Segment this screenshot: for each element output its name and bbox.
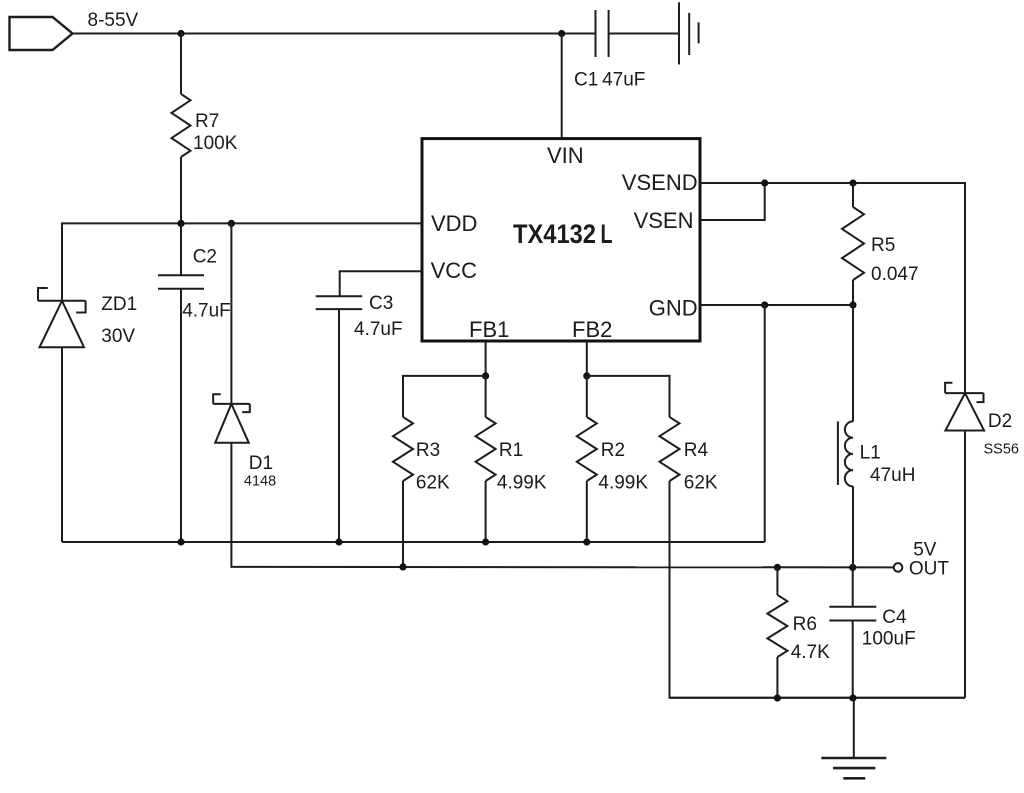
svg-text:D1: D1 [249,453,273,474]
node FB1 [482,372,489,379]
node R6 bottom [774,694,781,701]
svg-text:30V: 30V [101,326,135,347]
node C4 bottom [849,694,856,701]
svg-text:62K: 62K [416,473,450,494]
node R1 bottom [482,538,489,545]
svg-text:R7: R7 [195,111,219,132]
svg-text:L: L [601,219,613,249]
svg-text:R4: R4 [684,440,709,461]
svg-text:C2: C2 [193,246,217,267]
node D1 top [228,220,235,227]
node C4 top [849,564,856,571]
ground (top right, sideways) [679,2,699,64]
wire FB2 node to R4 [587,376,670,417]
svg-text:TX4132: TX4132 [513,219,596,249]
svg-text:100K: 100K [193,133,238,154]
wire VSEND [700,183,965,393]
svg-text:4148: 4148 [244,474,276,490]
resistor R1 [476,376,496,542]
wire FB2 pin [586,341,588,376]
svg-text:4.7uF: 4.7uF [182,301,231,322]
svg-text:C1 47uF: C1 47uF [574,70,645,91]
wire VSEN [700,183,765,220]
svg-text:L1: L1 [860,442,881,463]
svg-text:OUT: OUT [909,559,950,580]
svg-text:R5: R5 [871,235,895,256]
svg-text:R1: R1 [499,440,523,461]
node R5 top [849,179,856,186]
svg-text:5V: 5V [913,539,937,560]
svg-text:R3: R3 [416,440,440,461]
node R6 top [774,564,781,571]
terminal 5V OUT [894,563,903,572]
wire top input rail [73,33,596,35]
svg-text:4.99K: 4.99K [497,473,547,494]
node FB2 [583,372,590,379]
inductor L1 [838,305,853,567]
svg-text:R2: R2 [601,440,625,461]
diode D2 [945,383,984,698]
svg-text:0.047: 0.047 [871,264,919,285]
wire VCC [340,271,422,296]
wire VIN [561,34,563,139]
capacitor C4 [829,567,876,699]
node R3 bottom [399,563,406,570]
wire GND pin [700,304,853,306]
capacitor C3 [316,296,363,542]
capacitor C2 [158,223,204,542]
svg-text:FB2: FB2 [572,317,612,342]
resistor R3 [393,417,413,567]
node junction R7/top [177,30,184,37]
wire output rail 5V [232,566,893,569]
wire FB1 node to R3 [403,376,486,417]
wire GND down [764,305,766,542]
capacitor C1 [596,10,680,57]
wire ground rail bottom [670,697,966,699]
resistor R2 [577,376,597,542]
resistor R6 [767,567,787,699]
svg-text:ZD1: ZD1 [101,294,137,315]
node R5 bottom [849,301,856,308]
svg-text:FB1: FB1 [469,317,509,342]
resistor R7 [172,34,191,224]
svg-text:C4: C4 [882,607,907,628]
node VSEN join [761,179,768,186]
svg-text:VSEND: VSEND [622,170,698,195]
svg-text:C3: C3 [369,293,393,314]
op-amp U1 TX4132L box [422,139,700,342]
node R2 bottom [583,538,590,545]
diode D1 [213,223,250,567]
svg-text:VSEN: VSEN [634,208,694,233]
svg-text:D2: D2 [988,411,1012,432]
node C2 bottom [177,538,184,545]
node C3 bottom [335,538,342,545]
node C2 top [177,220,184,227]
svg-text:VDD: VDD [431,211,477,236]
svg-text:100uF: 100uF [862,629,916,650]
svg-text:VCC: VCC [431,258,478,283]
svg-text:47uH: 47uH [870,465,915,486]
ground (bottom) [821,698,886,778]
input connector [10,17,73,50]
svg-text:62K: 62K [684,473,718,494]
wire ground rail upper [62,541,765,543]
wire FB1 pin [485,341,487,376]
svg-text:R6: R6 [793,614,817,635]
svg-text:8-55V: 8-55V [88,10,139,31]
node junction VIN/top [558,30,565,37]
svg-text:4.99K: 4.99K [598,473,648,494]
svg-text:4.7K: 4.7K [791,642,830,663]
svg-text:SS56: SS56 [984,442,1019,458]
svg-text:GND: GND [649,296,698,321]
zener ZD1 [38,288,86,542]
wire VDD rail [62,223,422,300]
svg-text:4.7uF: 4.7uF [354,319,403,340]
resistor R5 [842,183,864,305]
svg-text:VIN: VIN [547,143,584,168]
resistor R4 [660,417,966,698]
node GND branch [761,301,768,308]
